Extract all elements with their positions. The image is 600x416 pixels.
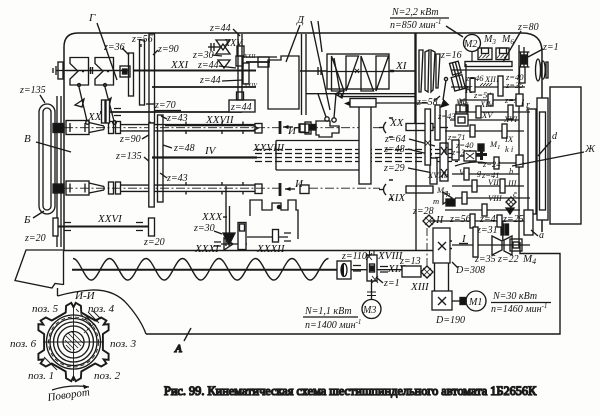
cam follower unit xyxy=(299,124,305,132)
svg-text:VIII: VIII xyxy=(488,193,503,203)
dashed spokes xyxy=(76,309,99,333)
svg-text:z=24: z=24 xyxy=(482,159,501,169)
svg-text:VII: VII xyxy=(488,177,500,187)
gears on II xyxy=(470,214,475,228)
motor M3 circle xyxy=(362,300,381,319)
gear z=56 xyxy=(140,40,145,105)
tall gear block left xyxy=(425,109,431,165)
pointer z=135c xyxy=(144,157,151,163)
variator housing xyxy=(327,54,389,89)
shaft XXV horizontal xyxy=(100,111,242,113)
pointer z=135 xyxy=(40,95,45,103)
svg-text:IV: IV xyxy=(204,145,217,157)
svg-text:М2: М2 xyxy=(463,39,477,50)
svg-text:XXX: XXX xyxy=(201,211,223,223)
svg-text:И-И: И-И xyxy=(74,290,96,302)
svg-text:z=20: z=20 xyxy=(143,237,165,248)
gear on cluster 3 xyxy=(243,63,249,84)
svg-text:N=1,1 кВт: N=1,1 кВт xyxy=(304,306,352,317)
svg-text:М4: М4 xyxy=(522,253,536,266)
shift lever 1 xyxy=(78,84,81,87)
cone clutch 1 xyxy=(70,58,89,86)
svg-text:XX: XX xyxy=(389,117,405,129)
svg-text:n=850 мин-1: n=850 мин-1 xyxy=(390,18,441,31)
svg-text:z=29: z=29 xyxy=(383,163,405,174)
solenoid 2 xyxy=(496,48,509,60)
vertical shaft XIII dashdot xyxy=(426,228,428,266)
vertical shaft XXII cluster xyxy=(238,34,242,101)
crosshair xyxy=(43,307,104,381)
small bevel mid xyxy=(218,60,230,68)
svg-text:z=35: z=35 xyxy=(474,254,496,265)
svg-text:z=43: z=43 xyxy=(166,113,188,124)
z13 rect xyxy=(402,266,421,277)
clutch fork XX xyxy=(384,122,387,133)
svg-text:XXVI: XXVI xyxy=(97,213,123,225)
svg-text:z=44: z=44 xyxy=(230,102,252,113)
solenoid 1 xyxy=(478,48,492,60)
svg-text:z=44: z=44 xyxy=(199,75,221,86)
shaft XXVII xyxy=(165,126,258,131)
pointer B xyxy=(36,142,71,152)
svg-text:z=90: z=90 xyxy=(157,44,179,55)
svg-text:Поворот: Поворот xyxy=(46,386,91,404)
svg-text:z=28: z=28 xyxy=(412,206,434,217)
svg-text:z=31: z=31 xyxy=(476,225,498,236)
svg-text:N=2,2 кВт: N=2,2 кВт xyxy=(391,7,439,18)
shaft y100 xyxy=(460,99,524,101)
pointer D xyxy=(286,25,300,62)
bed label A tick xyxy=(184,328,191,341)
shaft XIV xyxy=(455,111,530,113)
svg-text:z=22: z=22 xyxy=(497,254,519,265)
svg-text:Д: Д xyxy=(296,14,305,26)
svg-text:XII1: XII1 xyxy=(484,74,499,84)
svg-text:z=30: z=30 xyxy=(193,223,215,234)
svg-text:z=25: z=25 xyxy=(502,214,524,225)
feed band boxes xyxy=(276,141,360,171)
bevel cones on I xyxy=(473,227,478,257)
svg-text:D=190: D=190 xyxy=(435,315,465,326)
clutch M4 box xyxy=(510,239,522,251)
svg-text:М1: М1 xyxy=(489,139,500,151)
svg-text:z=44: z=44 xyxy=(197,60,219,71)
slide stepped block xyxy=(316,121,339,137)
svg-text:z=110: z=110 xyxy=(341,251,367,262)
section mark I spindle2 xyxy=(279,183,282,196)
motor M2 circle xyxy=(464,35,481,52)
svg-text:XXXII: XXXII xyxy=(256,243,286,255)
svg-text:XXXI: XXXI xyxy=(194,243,220,255)
follower rollers xyxy=(325,117,329,121)
partition wall center xyxy=(302,34,307,115)
XXVI end gear z=20 xyxy=(149,218,155,236)
clutch stub left xyxy=(53,66,66,75)
svg-text:z=56: z=56 xyxy=(131,34,153,45)
belt lines xyxy=(435,263,449,291)
black clutch M3h xyxy=(446,199,455,206)
partition wall right of variator xyxy=(414,33,416,130)
gear z=36 xyxy=(129,53,134,96)
svg-text:Г: Г xyxy=(88,12,96,24)
svg-text:b: b xyxy=(444,170,448,180)
variator center shaft xyxy=(327,71,389,73)
gear box xv xyxy=(455,114,468,126)
leader to M2 xyxy=(446,26,463,37)
svg-text:поз. 4: поз. 4 xyxy=(88,303,115,315)
hatch inner xyxy=(65,331,83,350)
shaft II xyxy=(430,220,530,222)
shaft XXXI xyxy=(221,243,247,245)
spindle 2 chuck xyxy=(66,181,89,195)
svg-text:XVI: XVI xyxy=(503,114,518,124)
gear z=135 long bar xyxy=(149,123,154,207)
shaft VIII xyxy=(455,197,530,199)
shaft VI xyxy=(452,173,519,175)
shaft to XVIII gear xyxy=(351,269,402,271)
spindle 2 tube xyxy=(121,185,256,191)
spindle 1 taper xyxy=(89,123,104,133)
svg-text:z=56: z=56 xyxy=(449,214,471,225)
variator input shaft xyxy=(300,70,327,72)
svg-text:n=1400 мин-1: n=1400 мин-1 xyxy=(305,318,361,331)
spindle 2 centerline xyxy=(64,187,282,189)
z110 ticks xyxy=(370,251,375,258)
svg-text:XI: XI xyxy=(395,60,408,72)
right big block xyxy=(550,87,581,224)
pulley D=308 xyxy=(433,228,450,263)
coupling marks XXXII xyxy=(284,233,291,241)
drum circles xyxy=(47,315,101,369)
clutch fork XIX xyxy=(384,184,387,195)
gears on XII xyxy=(470,78,475,92)
bearing block xyxy=(120,66,130,77)
vertical shaft x446 xyxy=(445,110,447,154)
conveyor screw xyxy=(73,259,329,281)
gear on cluster 1 xyxy=(237,46,244,56)
shaft y163 xyxy=(478,162,524,164)
svg-text:z=90: z=90 xyxy=(119,134,141,145)
pointer Г xyxy=(97,23,117,80)
svg-text:z=46: z=46 xyxy=(465,73,484,83)
cross link to drum D xyxy=(242,56,277,58)
drum D cam box xyxy=(268,56,299,109)
svg-text:z=1: z=1 xyxy=(542,42,559,53)
svg-text:a: a xyxy=(539,230,544,241)
bevel on VIII xyxy=(443,192,452,204)
bevel pair top xyxy=(216,40,230,54)
coupling marks I xyxy=(444,241,452,249)
svg-text:В: В xyxy=(24,133,31,145)
section mark I spindle1 xyxy=(279,121,282,134)
gear XVIII xyxy=(367,255,377,281)
motor M1 shaft xyxy=(452,300,467,302)
pointer z=90 xyxy=(142,133,152,139)
shaft I xyxy=(452,244,530,246)
spindle 1 bearing ticks xyxy=(150,122,243,135)
spindle 2 hub xyxy=(53,184,64,193)
svg-text:z=44: z=44 xyxy=(209,23,231,34)
shaft XV xyxy=(450,119,519,121)
body bottom edge xyxy=(64,250,436,252)
svg-text:n=1460 мин-1: n=1460 мин-1 xyxy=(491,302,547,315)
variator output shaft XI xyxy=(389,70,415,72)
dashed circle xyxy=(49,317,99,367)
camshaft gear2 xyxy=(516,155,523,167)
shaft XXI lower line xyxy=(152,86,256,88)
cluster bottom gear xyxy=(237,92,244,100)
svg-text:z=35: z=35 xyxy=(505,80,524,90)
label XIX bottom xyxy=(380,267,388,273)
pointer Ж xyxy=(512,152,584,166)
svg-text:И: И xyxy=(287,125,297,137)
shaft XX stub xyxy=(406,124,433,131)
shaft XXX vertical xyxy=(226,186,230,246)
shaft XXVI xyxy=(57,225,152,227)
svg-text:b: b xyxy=(509,166,513,176)
shaft XIX stub xyxy=(406,186,433,193)
svg-text:z=36: z=36 xyxy=(103,42,125,53)
spindle 2 collars xyxy=(109,182,114,194)
variator cones xyxy=(332,56,345,91)
worm z=1 unit xyxy=(519,52,530,67)
svg-text:z=1: z=1 xyxy=(383,278,400,289)
worm diamond XIII xyxy=(421,266,433,278)
conveyor axis xyxy=(72,269,337,271)
shift lever 2 xyxy=(104,84,107,87)
svg-text:XXI: XXI xyxy=(170,59,189,71)
svg-text:z=16: z=16 xyxy=(440,50,462,61)
variator shift lever xyxy=(334,58,340,92)
svg-text:z=48: z=48 xyxy=(383,144,405,155)
bar cap xyxy=(350,99,376,108)
povorot arrow xyxy=(52,386,89,390)
bed frame bottom right xyxy=(146,242,560,334)
shaft IX xyxy=(445,130,524,132)
conveyor coupling box xyxy=(337,261,351,279)
breakout left edge xyxy=(63,251,65,285)
svg-text:М1: М1 xyxy=(468,297,482,308)
main vertical camshaft xyxy=(518,45,520,245)
svg-text:XXVII: XXVII xyxy=(205,114,235,126)
cone clutch 2 xyxy=(95,58,114,86)
central drive sleeve outer xyxy=(528,109,536,214)
coupling marks xyxy=(318,67,321,75)
z31 black gears xyxy=(501,224,504,235)
XXVI bearing marks xyxy=(64,223,143,231)
bevel XXX xyxy=(223,233,235,245)
follower rods xyxy=(318,94,336,118)
svg-text:II: II xyxy=(435,214,445,226)
svg-text:XIII: XIII xyxy=(410,281,430,293)
bevel z=16 tilted stack xyxy=(448,61,466,91)
shaft IV xyxy=(152,156,257,158)
svg-text:z=20: z=20 xyxy=(24,233,46,244)
svg-text:поз. 3: поз. 3 xyxy=(110,338,137,350)
central drive sleeve inner xyxy=(537,98,548,220)
gear z=90 top xyxy=(149,34,155,123)
shaft y210 xyxy=(445,209,520,211)
svg-text:XVII: XVII xyxy=(427,170,445,180)
svg-text:поз. 5: поз. 5 xyxy=(32,303,59,315)
bevel XXXI xyxy=(224,238,233,250)
right bearing lenses xyxy=(536,59,541,81)
central gear column z43 z48 z43 xyxy=(158,115,164,202)
shaft VII xyxy=(452,185,524,187)
coupling XXXI xyxy=(214,242,221,246)
svg-text:XXIV: XXIV xyxy=(243,83,258,89)
spindle1 line ext xyxy=(309,127,380,129)
shaft XXI xyxy=(133,70,256,72)
svg-text:D=308: D=308 xyxy=(455,265,485,276)
machine body outline xyxy=(64,33,542,251)
motor M3 stem xyxy=(371,279,373,299)
svg-text:Б: Б xyxy=(23,214,31,226)
belt cone pulleys xyxy=(419,50,423,92)
curved link xyxy=(455,162,487,166)
svg-text:z=70: z=70 xyxy=(154,100,176,111)
black cross clutch xyxy=(476,153,487,156)
black clutch z40 xyxy=(478,144,484,151)
svg-text:g: g xyxy=(477,167,481,177)
solenoid platform xyxy=(465,62,512,67)
sliding gear block on spline xyxy=(440,143,448,181)
vertical shaft xii xyxy=(465,64,467,112)
svg-text:N=30 кВт: N=30 кВт xyxy=(492,291,537,302)
hatch marks clutch K xyxy=(480,83,492,86)
svg-text:IX: IX xyxy=(504,134,514,144)
pointer z=80 xyxy=(503,31,521,62)
svg-text:поз. 6: поз. 6 xyxy=(10,338,37,350)
svg-text:М3: М3 xyxy=(362,305,376,316)
gearbox left wall xyxy=(415,33,417,250)
label z=44 (4) boxed xyxy=(229,100,255,112)
slanted guide lines xyxy=(311,21,330,110)
shaft through pulleys xyxy=(66,70,128,72)
svg-text:М6: М6 xyxy=(501,34,514,46)
spindle 1 hub xyxy=(53,124,64,133)
left drum ring gear inner xyxy=(43,108,51,210)
svg-text:z=48: z=48 xyxy=(173,143,195,154)
svg-text:III: III xyxy=(507,178,518,188)
svg-text:И: И xyxy=(294,178,304,190)
shaft XXXII horizontal xyxy=(247,236,288,238)
svg-text:z=135: z=135 xyxy=(19,85,46,96)
gear XXXII xyxy=(273,230,279,243)
gears right of spline xyxy=(452,140,459,160)
svg-text:z=135: z=135 xyxy=(115,151,142,162)
spindle 2 taper xyxy=(89,183,104,193)
breakout boundary arc xyxy=(58,290,147,334)
worm III diamond xyxy=(506,197,516,207)
svg-text:А: А xyxy=(174,343,182,355)
spindle 1 centerline xyxy=(64,127,282,129)
svg-text:XIX: XIX xyxy=(387,192,406,204)
pulley D=190 xyxy=(432,291,452,310)
coupling marks xyxy=(353,266,361,272)
worm II diamond xyxy=(423,215,435,227)
svg-text:поз. 1: поз. 1 xyxy=(28,370,54,382)
drum face plate xyxy=(57,96,61,247)
spindle2 line ext xyxy=(309,187,380,189)
section hatch NE xyxy=(84,311,101,326)
svg-text:k i: k i xyxy=(505,144,514,154)
spindle 1 collars xyxy=(109,122,114,134)
left drum ring gear z=135 outer xyxy=(39,104,55,214)
svg-text:Ж: Ж xyxy=(584,143,596,155)
link lines right xyxy=(306,94,416,97)
black bevel pair III xyxy=(506,208,514,214)
meander bracket xyxy=(250,200,298,239)
motor M1 circle xyxy=(466,291,486,311)
chute xyxy=(15,250,64,288)
svg-text:XXVIII: XXVIII xyxy=(252,142,285,154)
lever tall bar xyxy=(359,106,371,184)
clutch T xyxy=(460,150,480,162)
gear on cluster 2 xyxy=(236,56,243,66)
spindle 2 bearing ticks xyxy=(150,182,243,195)
svg-text:К: К xyxy=(464,84,473,96)
svg-text:XV: XV xyxy=(481,110,494,120)
gearbox XXXI xyxy=(238,223,246,250)
svg-text:z=43: z=43 xyxy=(166,173,188,184)
spindle 1 tube xyxy=(121,125,256,131)
spindle 1 chuck xyxy=(66,121,89,135)
section hatch SW xyxy=(44,357,57,370)
svg-text:М3: М3 xyxy=(483,34,496,46)
coupling mark xyxy=(91,67,93,74)
svg-text:m: m xyxy=(433,196,439,206)
shaft XII xyxy=(452,69,513,71)
gears VI xyxy=(464,168,469,180)
lever arrow xyxy=(443,80,446,100)
hex drum castellated xyxy=(38,303,108,381)
svg-text:Рис. 99. Кинематическая схема: Рис. 99. Кинематическая схема шестишпинд… xyxy=(164,384,537,398)
camshaft gear xyxy=(516,94,523,106)
clutch M2 box xyxy=(456,105,467,114)
svg-text:поз. 2: поз. 2 xyxy=(94,370,121,382)
